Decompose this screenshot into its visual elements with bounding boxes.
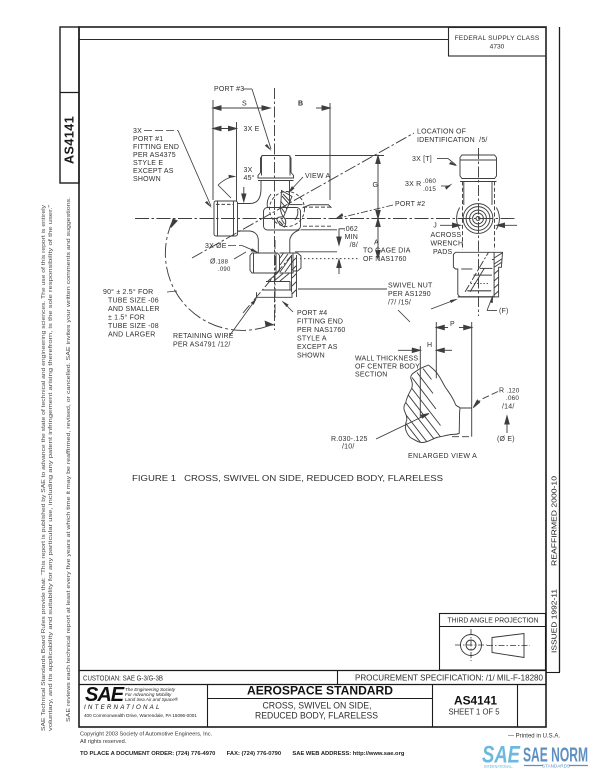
label RETAINING WIRE bbox=[173, 298, 257, 349]
svg-text:H: H bbox=[427, 342, 432, 349]
side view boss circles bbox=[457, 182, 500, 234]
svg-text:± 1.5° FOR: ± 1.5° FOR bbox=[108, 314, 145, 322]
label P bbox=[450, 321, 455, 328]
label ENLARGED VIEW A bbox=[408, 453, 477, 460]
bottom port cutaway hatch block bbox=[280, 253, 294, 273]
label dia .188/.090 bbox=[210, 252, 246, 273]
inner top border line bbox=[79, 39, 448, 41]
svg-text:All rights reserved.: All rights reserved. bbox=[80, 739, 127, 745]
label VIEW A bbox=[288, 173, 330, 194]
svg-text:PER NAS1760: PER NAS1760 bbox=[297, 327, 346, 334]
lower right body line bbox=[301, 226, 338, 230]
label 3X dia E bbox=[205, 243, 259, 253]
svg-text:IDENTIFICATION /5/: IDENTIFICATION /5/ bbox=[417, 137, 488, 144]
label port #1 callout bbox=[133, 128, 212, 208]
svg-text:voluntary, and its applicabili: voluntary, and its applicability and sui… bbox=[48, 205, 54, 731]
label 3X [T] bbox=[412, 156, 458, 166]
(dia E) arrow bbox=[505, 416, 509, 433]
third angle projection box bbox=[439, 614, 546, 671]
svg-text:PORT #3: PORT #3 bbox=[214, 86, 244, 93]
wrench pad right (main view) bbox=[303, 205, 332, 208]
diagonal swivel axis centerline bbox=[243, 256, 291, 313]
svg-text:P: P bbox=[450, 321, 455, 328]
dimension 3X E bbox=[213, 122, 237, 201]
side view swivel nut bbox=[453, 252, 494, 297]
label G bbox=[373, 182, 379, 189]
label TO GAGE DIA OF NAS1760 bbox=[363, 248, 411, 264]
svg-text:SAE: SAE bbox=[85, 684, 125, 706]
svg-text:J: J bbox=[433, 223, 437, 230]
svg-text:STYLE E: STYLE E bbox=[133, 160, 163, 167]
label 3X E bbox=[244, 126, 260, 133]
H dimension arrows bbox=[398, 346, 452, 418]
label B bbox=[298, 101, 303, 108]
R.030 leader arrow bbox=[376, 414, 429, 440]
svg-text:PORT #4: PORT #4 bbox=[297, 310, 327, 317]
svg-text:MIN: MIN bbox=[345, 234, 358, 241]
label SWIVEL NUT bbox=[388, 283, 458, 323]
left tab AS4141 box bbox=[60, 27, 79, 183]
.062 MIN bracket bbox=[337, 229, 345, 275]
SAE NORM watermark bbox=[482, 742, 588, 770]
label WALL THICKNESS bbox=[355, 356, 420, 379]
label S bbox=[242, 101, 247, 108]
svg-text:S: S bbox=[242, 101, 247, 108]
svg-text:45°: 45° bbox=[244, 174, 255, 182]
svg-text:TUBE SIZE -06: TUBE SIZE -06 bbox=[108, 298, 159, 305]
svg-text:STYLE A: STYLE A bbox=[297, 336, 327, 343]
svg-text:SHOWN: SHOWN bbox=[297, 353, 325, 360]
svg-text:ENLARGED VIEW A: ENLARGED VIEW A bbox=[408, 453, 477, 460]
projection symbol cone bbox=[487, 634, 530, 658]
SAE logo cell bbox=[84, 684, 197, 718]
svg-text:FITTING END: FITTING END bbox=[133, 144, 179, 151]
svg-text:VIEW A: VIEW A bbox=[305, 173, 330, 180]
aerospace standard cell bbox=[207, 684, 432, 721]
svg-text:ISSUED 1992-11: ISSUED 1992-11 bbox=[550, 589, 559, 653]
AS4141 cell bbox=[449, 694, 501, 717]
vertical centerline main view bbox=[274, 88, 276, 330]
label 3X R .060/.015 bbox=[405, 178, 453, 193]
label (dia E) bbox=[497, 436, 515, 443]
svg-text:3X: 3X bbox=[133, 128, 142, 135]
dimension S/B top bbox=[213, 100, 330, 200]
svg-text:TO PLACE A DOCUMENT ORDER: (: TO PLACE A DOCUMENT ORDER: (724) 776-497… bbox=[80, 751, 405, 757]
svg-text:3X R: 3X R bbox=[405, 181, 421, 188]
label R.120 .060 /14/ bbox=[499, 388, 520, 411]
projection symbol circle bbox=[455, 629, 487, 661]
main frame border bbox=[79, 27, 546, 727]
left rotated disclaimer column 1 bbox=[41, 204, 54, 731]
svg-text:ACROSS: ACROSS bbox=[431, 232, 462, 239]
svg-text:TO GAGE DIA: TO GAGE DIA bbox=[363, 248, 411, 255]
vertical centerline side view bbox=[478, 148, 480, 316]
label PORT #2 bbox=[335, 201, 425, 219]
svg-text:PER AS4375: PER AS4375 bbox=[133, 152, 176, 159]
svg-text:EXCEPT AS: EXCEPT AS bbox=[297, 344, 338, 351]
svg-text:.060: .060 bbox=[506, 395, 519, 402]
label LOCATION OF IDENTIFICATION bbox=[417, 129, 488, 145]
svg-text:B: B bbox=[298, 101, 303, 108]
svg-text:3X E: 3X E bbox=[244, 126, 260, 133]
svg-text:PROCUREMENT SPECIFICATION: /1/: PROCUREMENT SPECIFICATION: /1/ MIL-F-182… bbox=[355, 674, 544, 683]
svg-text:INTERNATIONAL.: INTERNATIONAL. bbox=[484, 764, 513, 769]
enlarged blob outline bbox=[404, 365, 472, 443]
svg-text:.060: .060 bbox=[423, 178, 436, 185]
svg-text:AS4141: AS4141 bbox=[454, 694, 497, 708]
svg-text:Ø.188: Ø.188 bbox=[210, 259, 229, 266]
svg-text:FITTING END: FITTING END bbox=[297, 319, 343, 326]
label 3X 45 chamfer bbox=[218, 167, 255, 198]
svg-text:SWIVEL NUT: SWIVEL NUT bbox=[388, 283, 433, 290]
side view labels bbox=[388, 156, 509, 322]
svg-text:FIGURE 1 CROSS, SWIVEL ON SI: FIGURE 1 CROSS, SWIVEL ON SIDE, REDUCED … bbox=[132, 473, 443, 483]
label H bbox=[427, 342, 432, 349]
svg-text:G: G bbox=[373, 182, 379, 189]
label ACROSS WRENCH PADS bbox=[431, 232, 464, 256]
svg-text:SAE Technical Standards Board: SAE Technical Standards Board Rules prov… bbox=[41, 204, 47, 731]
R.120 leader arrow bbox=[473, 392, 498, 408]
left rotated disclaimer column 2 bbox=[66, 197, 72, 722]
svg-text:CUSTODIAN: SAE G-3/G-3B: CUSTODIAN: SAE G-3/G-3B bbox=[83, 674, 163, 683]
bottom edge line bbox=[452, 436, 472, 438]
side view nut hatched wall bbox=[494, 252, 502, 297]
bottom port #4 nut bbox=[250, 253, 280, 273]
retaining wire groove flange bbox=[257, 255, 297, 297]
label R.030-.125 /10/ bbox=[331, 436, 368, 451]
svg-text:REDUCED BODY, FLARELESS: REDUCED BODY, FLARELESS bbox=[255, 711, 378, 721]
svg-text:— Printed in U.S.A.: — Printed in U.S.A. bbox=[508, 734, 560, 740]
svg-text:FEDERAL SUPPLY CLASS: FEDERAL SUPPLY CLASS bbox=[455, 35, 540, 42]
label PORT #3 bbox=[214, 86, 272, 151]
svg-text:AND SMALLER: AND SMALLER bbox=[108, 306, 160, 313]
svg-text:OF NAS1760: OF NAS1760 bbox=[363, 256, 407, 263]
label PORT #4 callout bbox=[282, 301, 346, 360]
label .062 MIN /8/ bbox=[344, 226, 358, 249]
svg-text:OF CENTER BODY: OF CENTER BODY bbox=[355, 364, 420, 371]
title block row 2 dividers bbox=[208, 684, 518, 727]
side view port #2 fitting end bbox=[460, 155, 497, 182]
svg-text:SAE reviews each technical rep: SAE reviews each technical report at lea… bbox=[66, 197, 72, 722]
J dimension arrows bbox=[440, 223, 517, 227]
left port #1 block bbox=[214, 187, 246, 236]
svg-text:SHOWN: SHOWN bbox=[133, 176, 161, 183]
side view wrench pad hidden lines bbox=[463, 182, 495, 251]
svg-text:.015: .015 bbox=[423, 186, 436, 193]
svg-text:LOCATION OF: LOCATION OF bbox=[417, 129, 466, 136]
svg-text:STANDARDS: STANDARDS bbox=[542, 764, 570, 769]
svg-text:WALL THICKNESS: WALL THICKNESS bbox=[355, 356, 418, 363]
label A bbox=[374, 240, 379, 247]
side port boss circle (view A target) bbox=[267, 191, 304, 228]
top port neck bbox=[261, 181, 290, 205]
custodian row bbox=[79, 670, 546, 685]
svg-text:SHEET 1 OF 5: SHEET 1 OF 5 bbox=[449, 708, 501, 717]
svg-text:R.030-.125: R.030-.125 bbox=[331, 436, 368, 443]
bottom port centerline bbox=[274, 240, 276, 318]
svg-text:/7/ /15/: /7/ /15/ bbox=[388, 300, 411, 307]
svg-text:PORT #2: PORT #2 bbox=[395, 201, 425, 208]
svg-text:A: A bbox=[374, 240, 379, 247]
body neck from left port bbox=[238, 189, 262, 254]
svg-text:(Ø E): (Ø E) bbox=[497, 436, 515, 443]
diagonal identification centerline bbox=[192, 133, 414, 258]
svg-text:PADS: PADS bbox=[433, 249, 452, 256]
svg-text:AEROSPACE STANDARD: AEROSPACE STANDARD bbox=[247, 684, 393, 698]
svg-text:WRENCH: WRENCH bbox=[431, 241, 464, 248]
swivel sweep arc bbox=[165, 219, 273, 330]
dimension G/A vertical bbox=[295, 156, 384, 259]
svg-text:.090: .090 bbox=[218, 267, 231, 273]
svg-text:/14/: /14/ bbox=[502, 404, 514, 411]
label (F) bbox=[487, 295, 509, 315]
federal supply class box bbox=[449, 28, 547, 57]
right edge strip bbox=[546, 27, 560, 673]
svg-text:.062: .062 bbox=[344, 226, 358, 233]
enlarged view labels bbox=[331, 321, 520, 460]
svg-text:3X: 3X bbox=[244, 167, 253, 174]
top port #3 nut bbox=[258, 156, 294, 181]
svg-text:PER AS1290: PER AS1290 bbox=[388, 291, 431, 298]
svg-text:4730: 4730 bbox=[490, 44, 505, 51]
svg-text:R .120: R .120 bbox=[499, 388, 520, 395]
P dimension bbox=[436, 322, 471, 437]
svg-text:RETAINING WIRE: RETAINING WIRE bbox=[173, 333, 234, 340]
gage plane lines right of elbow bbox=[295, 252, 387, 289]
svg-text:Land Sea Air and Space®: Land Sea Air and Space® bbox=[125, 696, 179, 702]
svg-text:PER AS4791 /12/: PER AS4791 /12/ bbox=[173, 342, 230, 349]
svg-text:THIRD ANGLE PROJECTION: THIRD ANGLE PROJECTION bbox=[448, 618, 539, 625]
svg-text:Copyright 2003 Society of Auto: Copyright 2003 Society of Automotive Eng… bbox=[80, 732, 213, 738]
svg-text:90° ± 2.5° FOR: 90° ± 2.5° FOR bbox=[103, 288, 153, 296]
svg-text:REAFFIRMED 2000-10: REAFFIRMED 2000-10 bbox=[550, 476, 559, 566]
svg-text:/10/: /10/ bbox=[342, 444, 354, 451]
svg-text:CROSS, SWIVEL ON SIDE,: CROSS, SWIVEL ON SIDE, bbox=[263, 701, 372, 711]
horizontal centerline bbox=[135, 218, 516, 220]
svg-text:INTERNATIONAL: INTERNATIONAL bbox=[84, 704, 162, 711]
svg-text:AS4141: AS4141 bbox=[63, 116, 77, 164]
svg-text:400 Commonwealth Drive, Warren: 400 Commonwealth Drive, Warrendale, PA 1… bbox=[84, 713, 197, 718]
svg-text:3X [T]: 3X [T] bbox=[412, 156, 432, 163]
label 90 deg tube size note bbox=[103, 288, 177, 339]
svg-text:SECTION: SECTION bbox=[355, 372, 388, 379]
svg-text:PORT #1: PORT #1 bbox=[133, 136, 163, 143]
svg-text:/8/: /8/ bbox=[350, 242, 358, 249]
svg-text:3X ØE: 3X ØE bbox=[205, 243, 227, 250]
svg-text:EXCEPT AS: EXCEPT AS bbox=[133, 168, 174, 175]
body center block bbox=[264, 205, 303, 253]
svg-text:AND LARGER: AND LARGER bbox=[108, 332, 156, 339]
swivel elbow right section bbox=[263, 253, 301, 290]
svg-text:(F): (F) bbox=[499, 308, 509, 315]
svg-text:TUBE SIZE -08: TUBE SIZE -08 bbox=[108, 323, 159, 330]
label J bbox=[433, 223, 437, 230]
